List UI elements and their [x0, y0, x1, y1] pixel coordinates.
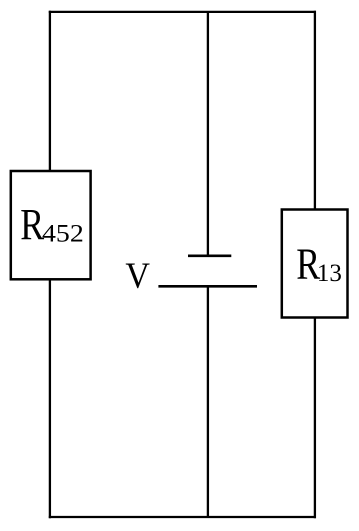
svg-text:V: V [125, 255, 150, 297]
svg-text:R: R [20, 200, 44, 249]
svg-text:452: 452 [42, 219, 84, 247]
svg-text:13: 13 [317, 260, 342, 287]
